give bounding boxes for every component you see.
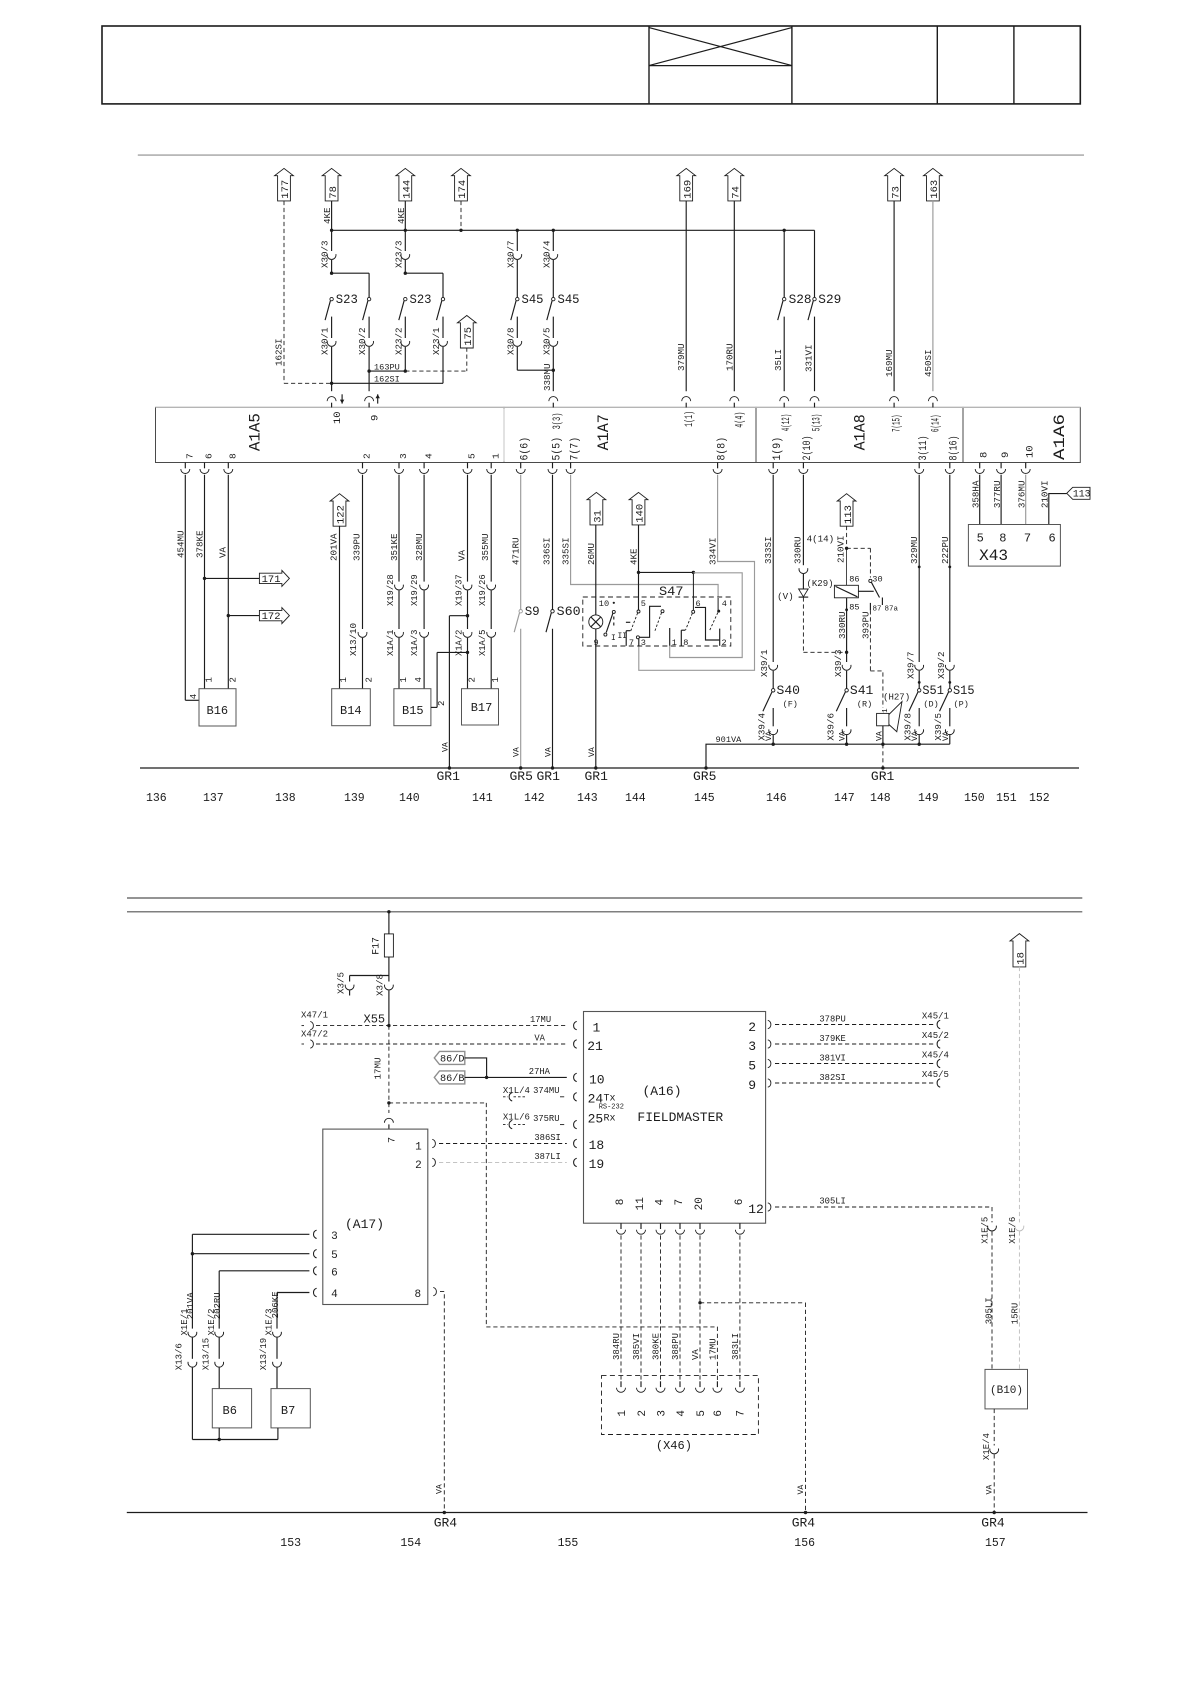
- A16 right pin arcs and dashed wires to X45: [768, 1020, 771, 1028]
- svg-text:VA: VA: [797, 1485, 806, 1495]
- svg-text:154: 154: [400, 1537, 421, 1550]
- wire below S51 via X39/8 to 901VA line: [918, 708, 920, 726]
- svg-text:X30/8: X30/8: [505, 327, 516, 355]
- svg-text:10: 10: [589, 1073, 605, 1088]
- svg-text:S40: S40: [777, 684, 801, 698]
- node bus-78: [330, 229, 333, 232]
- svg-text:5(13): 5(13): [812, 414, 824, 432]
- svg-text:4: 4: [655, 1199, 667, 1206]
- header table frame: [102, 26, 1080, 104]
- svg-text:144: 144: [625, 792, 646, 805]
- svg-text:375RU: 375RU: [533, 1114, 559, 1124]
- svg-text:X1E/5: X1E/5: [981, 1217, 991, 1244]
- svg-text:85: 85: [849, 603, 859, 613]
- page ref arrow 113 flag: [1067, 487, 1090, 499]
- svg-text:A1A7: A1A7: [595, 414, 613, 450]
- svg-text:387LI: 387LI: [534, 1152, 560, 1162]
- A1A5 top pin 10: [327, 397, 336, 401]
- branch to ref arrow 171: [203, 577, 206, 580]
- A1A7 top pin 4(4): [730, 397, 739, 401]
- dashed wire from A17 pin 8 to GR4 rail: [440, 1292, 444, 1513]
- svg-text:VA: VA: [911, 731, 920, 741]
- svg-text:A1A5: A1A5: [247, 413, 265, 451]
- diode V: [799, 589, 809, 597]
- wire 201VA from arrow 122 to B14 pin 1: [339, 526, 341, 689]
- wire below fuse: [388, 957, 390, 976]
- svg-text:151: 151: [996, 792, 1017, 805]
- wire 339PU from pin 2 with connector X13/10 to B14 pin 2: [362, 475, 364, 629]
- svg-text:4(12): 4(12): [781, 414, 793, 432]
- svg-text:4: 4: [423, 453, 434, 459]
- svg-text:GR1: GR1: [537, 769, 561, 784]
- svg-text:10: 10: [332, 411, 344, 424]
- svg-text:7(15): 7(15): [892, 415, 904, 433]
- dashed wire below diode to relay85 node: [802, 597, 804, 652]
- svg-text:B15: B15: [402, 704, 424, 718]
- page ref arrow 78: [322, 168, 341, 201]
- svg-text:201VA: 201VA: [329, 533, 340, 561]
- svg-text:X23/3: X23/3: [393, 240, 404, 268]
- wire X30/1 below S23: [331, 317, 333, 338]
- branch to S23b right pole: [405, 272, 443, 274]
- wire 338MU to A1A7 pin 3(3): [552, 370, 554, 391]
- node S51-901VA: [918, 743, 921, 746]
- svg-text:17MU: 17MU: [373, 1057, 384, 1079]
- svg-text:2: 2: [228, 677, 238, 682]
- svg-text:210VI: 210VI: [836, 535, 847, 563]
- svg-text:4KE: 4KE: [629, 548, 640, 565]
- svg-text:334VI: 334VI: [708, 537, 719, 565]
- svg-text:X1E/6: X1E/6: [1008, 1217, 1018, 1244]
- dashed wire below to GR1 rail: [882, 744, 884, 768]
- svg-text:5: 5: [641, 599, 646, 609]
- sensor B16: [199, 689, 236, 726]
- svg-text:S23: S23: [336, 293, 358, 307]
- wire 201VA chain connectors X1E/1 X13/6: [188, 1332, 197, 1337]
- node fuse feed: [387, 910, 390, 913]
- svg-text:X1A/5: X1A/5: [478, 630, 488, 656]
- svg-text:146: 146: [766, 792, 787, 805]
- svg-text:330RU: 330RU: [837, 611, 848, 639]
- wire X30/2 below S23 to pin 9: [368, 317, 370, 338]
- node X46 pin5 branch: [698, 1301, 701, 1304]
- top boundary rule: [138, 154, 1084, 156]
- svg-text:1: 1: [672, 638, 677, 648]
- branch to ref arrow 172: [227, 614, 230, 617]
- branch to connector X3/5: [350, 975, 389, 977]
- svg-text:2: 2: [637, 1410, 649, 1417]
- svg-text:139: 139: [344, 792, 365, 805]
- svg-text:8(16): 8(16): [949, 436, 961, 461]
- svg-text:2: 2: [362, 453, 373, 459]
- svg-text:329MU: 329MU: [909, 536, 920, 564]
- connector X46 dashed box: [602, 1376, 759, 1435]
- wire 222PU from A1A8 pin 8(16) to S15: [949, 475, 951, 662]
- svg-text:202RU: 202RU: [213, 1292, 223, 1319]
- node S60 rail: [551, 766, 554, 769]
- svg-text:328MU: 328MU: [414, 533, 425, 561]
- switch S45 right: [552, 297, 555, 300]
- svg-text:3(11): 3(11): [918, 436, 930, 461]
- wire VA from pin 5 via X19/37 X1A/2 to B17 pin 2: [467, 475, 469, 582]
- grey wire 376MU from A1A6 pin 10 to X43 pin 7: [1025, 475, 1027, 525]
- svg-text:X45/1: X45/1: [922, 1012, 949, 1022]
- svg-text:12: 12: [748, 1202, 764, 1217]
- wraparound wire from 4KE node to S47 terminal 1: [670, 573, 743, 658]
- dashed branch to relay contact 30: [847, 547, 871, 549]
- page ref arrow 74: [725, 168, 744, 201]
- wire 170RU from arrow 74 to A1A7 pin 4(4): [733, 201, 735, 391]
- svg-text:140: 140: [635, 504, 647, 523]
- svg-text:4: 4: [676, 1410, 688, 1417]
- svg-text:901VA: 901VA: [716, 735, 743, 745]
- module box A1A6: [963, 407, 1080, 462]
- sensor B6: [212, 1389, 251, 1428]
- svg-text:351KE: 351KE: [389, 533, 400, 561]
- wire 4KE from arrow 78 to bus: [331, 201, 333, 230]
- svg-text:GR5: GR5: [693, 769, 716, 784]
- switch S29: [813, 297, 816, 300]
- grey wire 471RU from pin 6(6) to switch S9: [520, 475, 522, 610]
- node rail 156: [804, 1511, 807, 1514]
- relay terminal 85 wire: [846, 598, 848, 653]
- svg-text:2: 2: [722, 638, 727, 648]
- svg-text:330RU: 330RU: [792, 536, 803, 564]
- svg-text:305LI: 305LI: [819, 1196, 845, 1206]
- A1A7 top pin 1(1): [682, 397, 691, 401]
- svg-text:VA: VA: [436, 1484, 445, 1494]
- svg-text:VA: VA: [457, 549, 468, 561]
- node 163PU-X30/2: [367, 369, 370, 372]
- node relay85-diode: [845, 651, 848, 654]
- A1A8 top pin 6(14): [928, 397, 937, 401]
- A16 pin 12 dashed wire 305LI to B10: [768, 1203, 771, 1211]
- svg-text:142: 142: [524, 792, 545, 805]
- svg-text:X30/4: X30/4: [541, 240, 552, 268]
- wire 358HA from A1A6 pin 8 to X43 pin 5: [979, 475, 981, 525]
- svg-text:7: 7: [674, 1199, 686, 1206]
- dashed ground branch to GR4 rail: [700, 1302, 806, 1304]
- wire 210VI from ref arrow 113 to X43 pin 6: [1049, 494, 1067, 525]
- svg-text:152: 152: [1029, 792, 1050, 805]
- svg-text:2: 2: [748, 1020, 756, 1035]
- svg-text:X45/2: X45/2: [922, 1031, 949, 1041]
- svg-text:143: 143: [577, 792, 598, 805]
- page ref pennant 18: [1010, 934, 1029, 967]
- grey dashed wire 387LI A17 pin2 to A16 pin 19: [432, 1158, 435, 1166]
- relay K29 coil: [834, 585, 858, 598]
- svg-text:376MU: 376MU: [1016, 481, 1027, 509]
- X46 pin cups and numbers: [620, 1381, 622, 1387]
- svg-text:S45: S45: [558, 293, 580, 307]
- switch S23 right: [404, 297, 407, 300]
- svg-text:17MU: 17MU: [530, 1015, 551, 1025]
- svg-text:1: 1: [490, 453, 501, 459]
- svg-text:1: 1: [617, 1410, 629, 1417]
- svg-text:F17: F17: [371, 937, 382, 955]
- svg-text:B16: B16: [207, 704, 229, 718]
- svg-text:358HA: 358HA: [970, 480, 981, 508]
- svg-text:8: 8: [979, 452, 991, 458]
- dashed wire 17MU down from X55: [388, 1026, 390, 1103]
- node bus-144: [404, 229, 407, 232]
- page ref arrow 175: [457, 316, 476, 349]
- page ref arrow 163: [924, 168, 943, 201]
- node H27-901VA: [881, 743, 884, 746]
- svg-text:305LI: 305LI: [984, 1297, 994, 1324]
- svg-text:471RU: 471RU: [511, 537, 522, 565]
- svg-text:454MU: 454MU: [175, 530, 186, 558]
- sensor B7: [271, 1389, 310, 1428]
- relay terminal 86 wire: [846, 548, 848, 585]
- node 163PU-X23/2: [404, 369, 407, 372]
- svg-text:7: 7: [736, 1410, 748, 1417]
- wire 4KE drop to S47 terminal 6: [692, 572, 694, 610]
- svg-text:6(6): 6(6): [520, 437, 532, 461]
- svg-text:15RU: 15RU: [1011, 1303, 1021, 1325]
- switch S23 second feed with connector X23/3: [404, 230, 406, 251]
- node H27 rail: [881, 766, 884, 769]
- svg-text:GR4: GR4: [434, 1515, 458, 1530]
- svg-text:1(9): 1(9): [772, 437, 784, 461]
- node rail 154: [443, 1511, 446, 1514]
- wire from 162SI node to A1A5 pin 10: [331, 383, 333, 391]
- svg-text:1: 1: [399, 677, 409, 682]
- S47 indicator lamp: [589, 615, 603, 629]
- svg-text:147: 147: [834, 792, 855, 805]
- svg-text:163: 163: [929, 180, 941, 199]
- page ref arrow 113 above relay: [837, 494, 856, 527]
- switch S45 feeds with connectors X30/7 X30/4: [516, 230, 518, 251]
- node 901VA rail: [704, 766, 707, 769]
- svg-text:(A17): (A17): [345, 1217, 384, 1232]
- sensor B17: [462, 689, 499, 725]
- svg-text:X45/4: X45/4: [922, 1051, 949, 1061]
- svg-text:222PU: 222PU: [940, 536, 951, 564]
- ecu A17 box: [323, 1129, 428, 1304]
- svg-text:162SI: 162SI: [374, 374, 400, 384]
- svg-text:385VI: 385VI: [632, 1333, 642, 1360]
- wire 35LI below S28 to A1A8 pin 4(12): [783, 317, 785, 392]
- svg-text:X39/1: X39/1: [759, 649, 770, 677]
- wire from 86/D: [465, 1058, 487, 1078]
- junction of S45 wires: [517, 369, 553, 371]
- dashed wire 386SI A17 pin1 to A16 pin 18: [432, 1139, 435, 1147]
- svg-text:206KE: 206KE: [271, 1291, 281, 1318]
- relay armature link: [858, 590, 873, 592]
- svg-text:X19/37: X19/37: [454, 574, 464, 606]
- svg-text:4KE: 4KE: [396, 207, 407, 224]
- svg-text:3: 3: [398, 453, 409, 459]
- svg-text:171: 171: [262, 574, 281, 586]
- svg-text:393PU: 393PU: [860, 611, 871, 639]
- signal arrow down at pin 10: [341, 394, 343, 403]
- wire 4KE from arrow 144 to bus: [404, 201, 406, 230]
- node rail 157: [993, 1511, 996, 1514]
- svg-text:VA: VA: [765, 731, 774, 741]
- switch S51: [918, 689, 921, 692]
- dashed wire 17MU to A16 pin 1: [316, 1025, 567, 1027]
- svg-text:X30/1: X30/1: [320, 327, 331, 355]
- wire 355MU from pin 1 via X19/26 X1A/5 to B17 pin 1: [490, 475, 492, 582]
- wire below S60 to GR1 rail: [552, 629, 554, 768]
- svg-text:GR5: GR5: [510, 769, 533, 784]
- wire VA from pin 8 to B16 pin 2: [227, 475, 229, 689]
- svg-text:355MU: 355MU: [480, 533, 491, 561]
- svg-text:X19/29: X19/29: [410, 574, 420, 606]
- switch S40: [772, 689, 775, 692]
- node X55 route split: [387, 1101, 390, 1104]
- wire from A17 pin 4 to B7 via X1E/3 X13/19: [277, 1292, 309, 1294]
- svg-text:388PU: 388PU: [671, 1333, 681, 1360]
- A17 left pins: [314, 1230, 317, 1238]
- svg-text:73: 73: [890, 186, 902, 199]
- svg-text:5: 5: [748, 1059, 756, 1074]
- node bus-S45a: [516, 229, 519, 232]
- svg-text:VA: VA: [513, 747, 522, 757]
- wire from A17 pin 5: [192, 1253, 309, 1255]
- svg-text:25: 25: [588, 1112, 604, 1127]
- svg-text:X55: X55: [364, 1013, 386, 1027]
- svg-text:X3/5: X3/5: [335, 972, 346, 994]
- svg-text:8: 8: [615, 1199, 627, 1206]
- dashed wire VA to A16 pin 21: [316, 1043, 567, 1045]
- svg-text:30: 30: [872, 575, 882, 585]
- svg-text:163PU: 163PU: [374, 362, 400, 372]
- wire below S41 via X39/6 to 901VA line: [846, 708, 848, 726]
- wire X23/1 below S23b: [442, 317, 444, 338]
- svg-text:144: 144: [402, 180, 414, 199]
- supply bus 4KE horizontal: [332, 229, 815, 231]
- svg-text:S47: S47: [659, 585, 684, 599]
- relay terminals 87: [869, 603, 871, 610]
- svg-text:169: 169: [682, 180, 694, 199]
- svg-text:19: 19: [589, 1157, 605, 1172]
- svg-text:(D): (D): [923, 700, 938, 710]
- S47 terminal 8: [681, 629, 685, 631]
- svg-text:9: 9: [370, 415, 382, 421]
- switch S9: [519, 610, 522, 613]
- svg-text:201VA: 201VA: [186, 1292, 196, 1320]
- svg-text:174: 174: [457, 180, 469, 199]
- svg-text:GR1: GR1: [437, 769, 461, 784]
- ground rail GR1/GR5 top section: [140, 767, 1079, 769]
- svg-text:380KE: 380KE: [652, 1333, 662, 1360]
- svg-text:1(1): 1(1): [684, 411, 696, 427]
- connector X39/1 on 333SI wire: [769, 665, 778, 670]
- node S41-901VA: [845, 743, 848, 746]
- relay terminal 30 contact: [869, 579, 872, 582]
- node B6 return: [218, 1438, 221, 1441]
- svg-text:S41: S41: [850, 684, 874, 698]
- svg-text:3: 3: [748, 1039, 756, 1054]
- svg-text:S15: S15: [953, 684, 975, 698]
- svg-text:18: 18: [589, 1138, 605, 1153]
- svg-text:X1A/3: X1A/3: [410, 630, 420, 656]
- svg-text:GR4: GR4: [981, 1515, 1005, 1530]
- S47 terminal 2: [719, 629, 721, 646]
- svg-text:(F): (F): [783, 700, 798, 710]
- svg-text:X1L/4: X1L/4: [503, 1086, 530, 1096]
- bus corner drop to S29: [814, 230, 816, 297]
- page ref arrow 73: [885, 168, 904, 201]
- svg-text:X47/2: X47/2: [301, 1029, 328, 1039]
- svg-text:X13/15: X13/15: [201, 1338, 211, 1370]
- svg-text:S23: S23: [410, 293, 432, 307]
- svg-text:122: 122: [336, 505, 348, 524]
- svg-text:(H27): (H27): [883, 693, 910, 703]
- svg-text:18: 18: [1016, 952, 1028, 965]
- S47 lamp lower wire to GR1 rail: [595, 629, 597, 768]
- svg-text:87: 87: [873, 606, 882, 614]
- wire from B15 pin 2: [437, 651, 467, 653]
- svg-text:B6: B6: [223, 1404, 237, 1418]
- svg-text:X43: X43: [979, 547, 1008, 565]
- svg-text:4: 4: [414, 677, 424, 682]
- svg-text:(V): (V): [777, 591, 794, 602]
- svg-text:VA: VA: [588, 747, 597, 757]
- grey dashed wire 15RU from arrow 18 to B10: [1018, 967, 1020, 1223]
- node B15 pin2 net: [466, 651, 469, 654]
- node pin5 branch: [191, 1252, 194, 1255]
- svg-text:86: 86: [849, 575, 859, 585]
- svg-text:VA: VA: [217, 546, 228, 558]
- wire dashed from arrow 177 down to node at 162SI line: [283, 201, 285, 383]
- A17 right pin 8: [433, 1287, 436, 1295]
- wire 331VI below S29 to A1A8 pin 5(13): [814, 317, 816, 392]
- S47 contact lever 6 dashed: [685, 613, 692, 630]
- svg-text:3: 3: [331, 1231, 338, 1243]
- wire 328MU from pin 4 via X19/29 X1A/3 to B15 pin 4: [423, 475, 425, 582]
- svg-text:26MU: 26MU: [586, 543, 597, 565]
- svg-text:2(10): 2(10): [802, 436, 814, 461]
- bus drop to S28: [783, 230, 785, 297]
- S47 contact lever from terminal 10: [606, 613, 613, 632]
- svg-text:383LI: 383LI: [731, 1333, 741, 1360]
- svg-text:140: 140: [399, 792, 420, 805]
- svg-text:A1A8: A1A8: [851, 414, 869, 450]
- node bus-S28: [783, 229, 786, 232]
- svg-text:381VI: 381VI: [819, 1054, 845, 1064]
- header crossed image placeholder box: [649, 65, 792, 67]
- module box A1A5: [156, 407, 505, 462]
- svg-text:4(4): 4(4): [734, 412, 746, 428]
- svg-text:162SI: 162SI: [274, 338, 285, 366]
- svg-text:X19/28: X19/28: [386, 574, 396, 606]
- svg-text:379KE: 379KE: [819, 1034, 845, 1044]
- wire 901VA from S47 area to GR5 rail: [706, 744, 950, 768]
- svg-text:5(5): 5(5): [551, 437, 563, 461]
- svg-text:374MU: 374MU: [533, 1086, 559, 1096]
- svg-text:4KE: 4KE: [322, 207, 333, 224]
- grey wire 335SI from pin 7(7) to S47 terminal 4: [571, 475, 719, 597]
- svg-text:35LI: 35LI: [773, 349, 784, 371]
- svg-text:382SI: 382SI: [819, 1073, 845, 1083]
- svg-text:X3/8: X3/8: [375, 974, 386, 996]
- svg-text:X1E/4: X1E/4: [982, 1433, 992, 1460]
- A16 left pin arcs: [574, 1021, 577, 1029]
- svg-text:335SI: 335SI: [561, 537, 572, 565]
- wire 330RU from A1A8 pin 2(10) to diode: [802, 475, 804, 566]
- svg-text:5: 5: [331, 1250, 338, 1262]
- svg-text:X30/7: X30/7: [505, 240, 516, 268]
- wire to A17 pin 7: [388, 1103, 390, 1113]
- net line 163PU: [369, 370, 405, 372]
- svg-text:8: 8: [228, 453, 239, 459]
- svg-text:17MU: 17MU: [709, 1338, 719, 1360]
- svg-text:(R): (R): [857, 700, 872, 710]
- connector X43 box: [968, 525, 1060, 567]
